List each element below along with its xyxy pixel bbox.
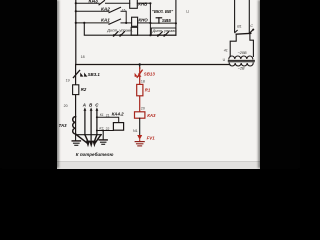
box dist2	[151, 28, 176, 35]
wire phase C	[96, 110, 98, 135]
wire SB5 row	[150, 22, 176, 24]
svg-text:18: 18	[81, 55, 85, 59]
right black bar	[260, 0, 301, 168]
ground right stub	[102, 131, 104, 140]
svg-text:КА2: КА2	[101, 7, 110, 12]
arrester FV1	[137, 135, 142, 140]
svg-text:К1: К1	[100, 113, 104, 117]
svg-text:U: U	[223, 58, 226, 62]
contact tick B1	[235, 30, 237, 32]
svg-text:19: 19	[66, 79, 70, 83]
svg-text:К потребителю: К потребителю	[76, 151, 114, 157]
fan diagonal left outer	[76, 135, 87, 144]
wire left rail	[75, 0, 77, 65]
svg-text:20: 20	[64, 104, 68, 108]
ground FV1	[135, 141, 144, 143]
svg-text:R1: R1	[145, 87, 151, 92]
relay box KHO	[132, 17, 138, 26]
arrow A	[84, 107, 87, 110]
svg-text:Дист. управл.: Дист. управл.	[152, 29, 177, 33]
switch SB3.1	[73, 70, 79, 77]
relay coil KA3 red	[135, 112, 145, 118]
node rail row3	[75, 22, 77, 24]
arrow B	[90, 107, 93, 110]
contact KA1 blade	[109, 19, 121, 24]
svg-text:~20В: ~20В	[238, 51, 247, 55]
svg-text:18: 18	[141, 80, 145, 84]
svg-text:КА1: КА1	[101, 18, 110, 23]
svg-text:~2В: ~2В	[238, 67, 245, 71]
connector box on wire2	[131, 27, 137, 35]
wire row3 to node	[138, 22, 151, 24]
svg-text:41: 41	[224, 48, 228, 52]
wire row2	[76, 10, 109, 12]
node row3	[149, 22, 151, 24]
resistor R1 red	[137, 84, 143, 95]
svg-text:FV1: FV1	[147, 135, 156, 140]
svg-text:КА3: КА3	[89, 0, 99, 5]
node rail row2	[75, 10, 77, 12]
wire collector bar	[76, 134, 102, 136]
fan diagonal right outer	[95, 135, 101, 144]
svg-text:N1: N1	[133, 129, 138, 133]
node rail row1	[75, 2, 77, 4]
contact dist1 a	[114, 32, 119, 37]
wire red branch	[139, 68, 141, 113]
svg-text:В: В	[89, 103, 93, 108]
contact KA2 blade	[109, 7, 121, 12]
svg-text:SB3.1: SB3.1	[88, 72, 101, 77]
wire below KA3	[139, 118, 141, 135]
node bus red branch	[139, 63, 141, 65]
ground left	[72, 140, 80, 142]
wire KA4 lower	[97, 130, 114, 132]
fan diagonal C	[94, 135, 97, 143]
contact dist1 b	[120, 32, 125, 37]
ground left stub	[75, 135, 77, 141]
bottom gray strip	[57, 161, 260, 170]
svg-text:R2: R2	[81, 87, 87, 92]
wire KA4 upper	[97, 117, 119, 122]
svg-text:15: 15	[122, 8, 126, 12]
svg-text:КНВ: КНВ	[138, 1, 148, 6]
transformer TV lower winding	[229, 63, 253, 66]
svg-text:А: А	[82, 103, 86, 108]
svg-text:В1: В1	[237, 25, 241, 29]
node row1	[149, 2, 151, 4]
svg-text:КНО: КНО	[138, 18, 148, 23]
wire row2 elbow	[121, 11, 126, 23]
svg-text:С: С	[95, 103, 99, 108]
fan diagonal A	[85, 135, 89, 143]
wire phase B	[90, 110, 92, 143]
transformer core	[228, 59, 254, 61]
wire red branch black top	[139, 65, 141, 69]
svg-text:SB13: SB13	[144, 71, 156, 76]
contact KA3 blade	[99, 1, 105, 5]
svg-text:SB5: SB5	[162, 18, 171, 23]
contact dist2 a	[158, 32, 163, 36]
svg-text:"ВКЛ. ВВ": "ВКЛ. ВВ"	[152, 9, 174, 14]
svg-text:КА4.2: КА4.2	[112, 112, 125, 117]
pushbutton SB5	[158, 18, 160, 23]
wire main bus	[76, 64, 230, 66]
wire B1 vertical	[234, 0, 236, 32]
wire row1 right	[106, 2, 130, 4]
wire vertical node column	[149, 3, 151, 35]
wire row3 to box	[121, 22, 132, 24]
wire row1 to node	[137, 2, 150, 4]
wire row1	[76, 2, 99, 4]
svg-text:С: С	[250, 24, 253, 28]
wire left lead transformer	[230, 34, 236, 56]
wire stub to wire2	[84, 23, 176, 35]
switch SB13 red	[137, 70, 142, 77]
left black bar	[0, 0, 57, 168]
resistor R2	[73, 85, 79, 95]
node row2-row3	[125, 22, 127, 24]
arrow C	[96, 107, 99, 110]
svg-text:Дист. управл.: Дист. управл.	[106, 27, 133, 32]
relay box KA4	[113, 123, 123, 131]
wire C vertical	[248, 0, 250, 33]
wire right lead transformer	[250, 34, 254, 57]
transformer TA3 coil	[73, 117, 76, 134]
svg-text:U: U	[186, 9, 189, 14]
wire row3	[76, 22, 109, 24]
contact dist2 b	[164, 32, 169, 36]
wire phase A	[84, 110, 86, 135]
fan arrowheads	[86, 141, 90, 148]
ground right	[99, 139, 107, 141]
svg-text:КА3: КА3	[147, 113, 156, 118]
transformer TV upper winding	[229, 56, 253, 59]
node SB5 right	[175, 22, 177, 24]
svg-text:20: 20	[141, 107, 145, 111]
switch blade QS	[236, 32, 251, 35]
svg-text:ТА3: ТА3	[59, 123, 68, 128]
relay box KHB	[130, 0, 138, 8]
wire left branch	[75, 65, 77, 135]
wire U rail	[175, 0, 177, 35]
node wire2	[149, 34, 151, 36]
node row3 stub	[83, 22, 85, 24]
